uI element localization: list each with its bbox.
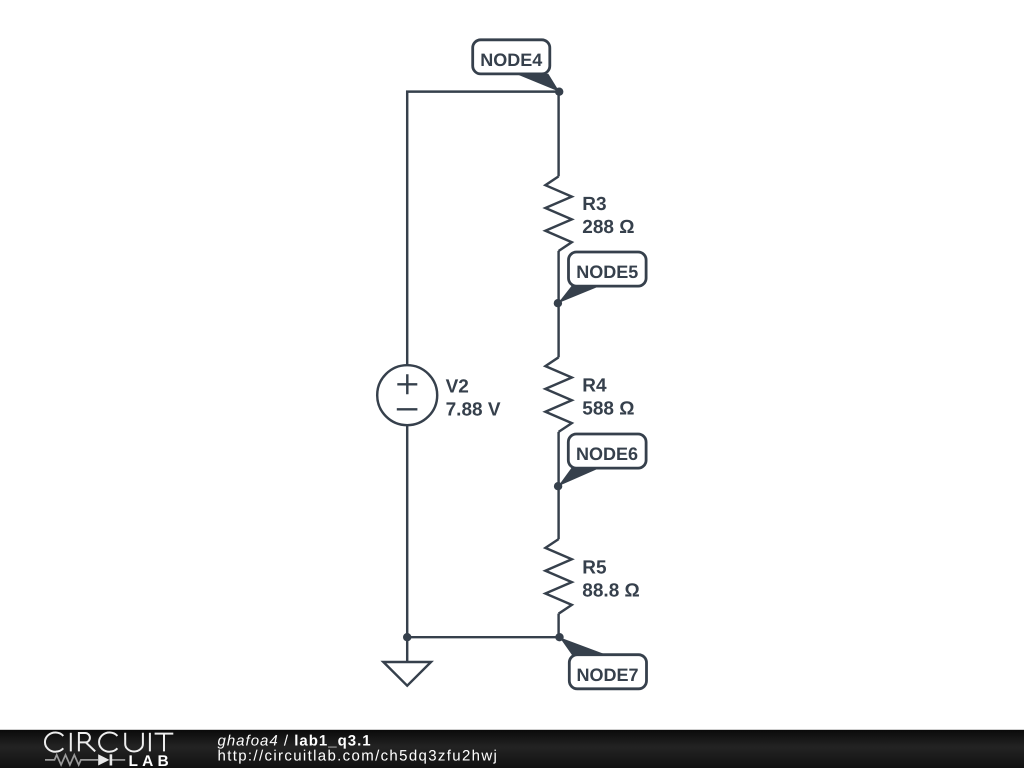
node NODE7 junction dot <box>555 633 563 641</box>
svg-text:R3: R3 <box>582 194 606 215</box>
resistor R5 zigzag <box>545 539 571 614</box>
V2 plus sign <box>397 374 417 394</box>
label NODE5 callout <box>558 252 646 303</box>
svg-text:NODE4: NODE4 <box>480 50 542 70</box>
svg-text:http://circuitlab.com/ch5dq3zf: http://circuitlab.com/ch5dq3zfu2hwj <box>218 747 499 764</box>
svg-text:NODE5: NODE5 <box>576 262 638 282</box>
svg-text:588 Ω: 588 Ω <box>582 398 634 419</box>
label NODE6 callout <box>558 434 646 486</box>
wire right branch NODE4 to R3 <box>557 92 559 177</box>
node NODE6 junction dot <box>554 482 562 490</box>
voltage source V2 circle <box>377 365 437 425</box>
V2 minus sign <box>397 408 418 410</box>
svg-text:7.88 V: 7.88 V <box>446 400 501 421</box>
svg-text:V2: V2 <box>446 376 469 397</box>
svg-text:R4: R4 <box>582 375 607 396</box>
node NODE4 junction dot <box>555 88 563 96</box>
wire R3 to R4 through NODE5 <box>557 251 559 358</box>
svg-text:288 Ω: 288 Ω <box>582 217 634 238</box>
wire top horizontal NODE4 net and left branch upper (to V2 +) <box>407 92 559 365</box>
resistor R4 zigzag <box>545 357 571 432</box>
footer bar <box>0 730 1024 768</box>
svg-text:R5: R5 <box>582 557 607 578</box>
wire R5 to NODE7 <box>557 614 559 638</box>
wire R4 to R5 through NODE6 <box>557 432 559 539</box>
wire left branch lower (V2 - to ground net) <box>406 426 408 637</box>
ground net junction dot <box>403 633 411 641</box>
logo CIRCUIT wordmark <box>45 733 173 752</box>
svg-text:LAB: LAB <box>129 753 173 768</box>
node NODE5 junction dot <box>554 299 562 307</box>
wire bottom horizontal NODE7 net <box>407 636 559 638</box>
ground triangle <box>383 662 431 686</box>
logo resistor-diode squiggle <box>45 754 125 765</box>
svg-text:NODE6: NODE6 <box>576 444 638 464</box>
ground lead <box>406 637 408 661</box>
svg-text:NODE7: NODE7 <box>576 665 638 685</box>
label NODE7 callout <box>560 637 647 689</box>
svg-text:88.8 Ω: 88.8 Ω <box>582 580 640 601</box>
label NODE4 callout <box>473 40 560 92</box>
resistor R3 zigzag <box>545 176 571 251</box>
